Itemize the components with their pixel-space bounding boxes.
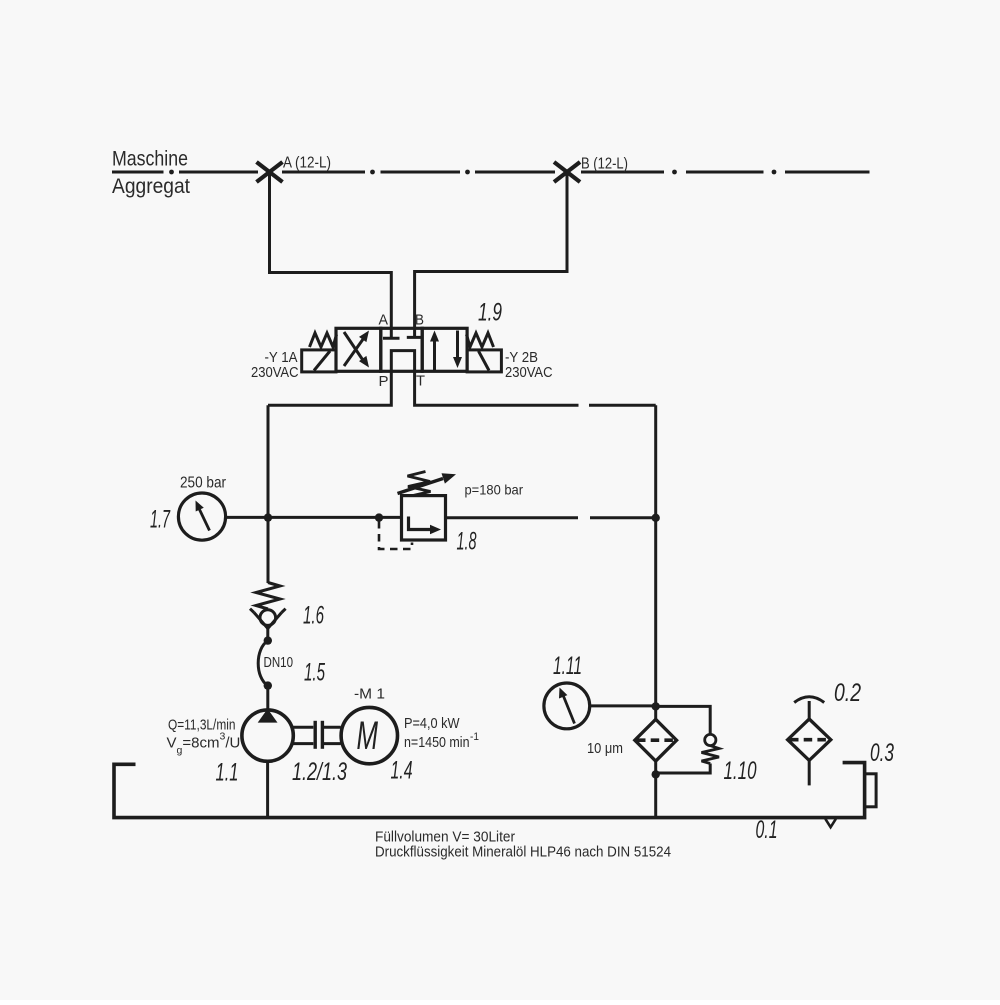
node B (12-L) connection cross: [554, 162, 580, 182]
wire gauge to relief valve line: [226, 516, 402, 519]
gauge 1.11 filter clogging indicator: [544, 683, 590, 729]
port 0.3 return connection block: [865, 774, 877, 807]
svg-text:A: A: [379, 312, 389, 329]
valve 1.9 port labels A B P T: [379, 312, 426, 391]
filter 1.10 return filter 10um: [654, 706, 657, 719]
svg-text:P=4,0 kW: P=4,0 kW: [404, 715, 460, 732]
valve 1.9 left position crossed arrows: [344, 332, 364, 366]
svg-text:1.10: 1.10: [724, 757, 757, 785]
valve 1.9 directional valve body: [336, 328, 467, 371]
svg-text:1.5: 1.5: [304, 659, 325, 687]
note fluid specification text: [375, 830, 671, 861]
junction filter top: [652, 702, 660, 710]
valve 1.9 centre position blocked A/B and P-T bypass: [383, 337, 423, 371]
svg-text:1.2/1.3: 1.2/1.3: [292, 758, 347, 786]
wire B line down to valve port B: [415, 174, 567, 338]
svg-text:-1: -1: [470, 731, 479, 743]
svg-text:Maschine: Maschine: [112, 148, 188, 171]
wire relief valve outlet to tank drop: [446, 516, 578, 519]
svg-text:230VAC: 230VAC: [251, 365, 299, 381]
coupling 1.2/1.3 shaft: [293, 721, 341, 749]
svg-text:250 bar: 250 bar: [180, 475, 227, 492]
tank 0.1 reservoir outline: [114, 763, 865, 818]
node A (12-L) connection cross: [257, 162, 283, 182]
svg-text:B (12-L): B (12-L): [581, 156, 628, 173]
valve 1.8 pressure relief valve: [402, 496, 446, 540]
svg-text:P: P: [379, 373, 389, 390]
svg-text:-Y 2B: -Y 2B: [505, 350, 538, 366]
valve 1.8 spring: [408, 472, 431, 496]
breather 0.2 air filter: [788, 719, 831, 760]
solenoid Y1A box with spring: [302, 350, 336, 372]
svg-text:1.7: 1.7: [150, 506, 171, 534]
svg-text:M: M: [357, 714, 379, 758]
svg-text:Füllvolumen V= 30Liter: Füllvolumen V= 30Liter: [375, 830, 515, 846]
wire valve T to tank drop: [415, 371, 579, 405]
svg-text:Q=11,3L/min: Q=11,3L/min: [168, 717, 236, 734]
junction outlet/tank drop: [652, 514, 660, 522]
svg-text:A (12-L): A (12-L): [283, 155, 331, 172]
svg-text:-M 1: -M 1: [354, 686, 385, 703]
svg-text:T: T: [416, 373, 425, 390]
svg-text:Vg=8cm3/U: Vg=8cm3/U: [167, 731, 241, 757]
tank flow arrow: [825, 819, 836, 827]
solenoid Y2B box with spring: [467, 350, 501, 372]
wire filter to tank: [654, 774, 657, 817]
valve 1.8 pilot dashed line: [379, 521, 412, 549]
svg-text:1.11: 1.11: [553, 652, 582, 680]
gauge 1.7 pressure gauge 250 bar: [178, 493, 225, 540]
svg-text:0.1: 0.1: [756, 816, 778, 844]
valve 1.8 adjustment arrow: [398, 479, 444, 494]
wire pump suction to tank: [266, 761, 269, 817]
node Maschine/Aggregat boundary labels: [112, 148, 190, 199]
hose 1.5 DN10 flexible line: [264, 636, 272, 644]
svg-text:10 μm: 10 μm: [587, 740, 623, 757]
svg-text:-Y 1A: -Y 1A: [265, 350, 298, 366]
svg-text:p=180 bar: p=180 bar: [465, 482, 524, 498]
svg-text:Aggregat: Aggregat: [112, 175, 190, 198]
wire tank drop line right side: [654, 405, 657, 706]
wire A line down to valve port A: [270, 174, 392, 338]
svg-text:230VAC: 230VAC: [505, 365, 553, 381]
wire boundary dash-dot rail: [112, 171, 870, 174]
check valve filter bypass: [656, 706, 711, 734]
junction pilot tap: [375, 513, 383, 521]
svg-text:0.3: 0.3: [870, 739, 894, 767]
svg-text:1.4: 1.4: [391, 757, 413, 785]
svg-text:DN10: DN10: [264, 655, 294, 671]
svg-text:B: B: [415, 312, 424, 329]
check valve 1.6 spring: [256, 583, 280, 610]
svg-text:Druckflüssigkeit Mineralöl HLP: Druckflüssigkeit Mineralöl HLP46 nach DI…: [375, 845, 671, 861]
svg-text:1.9: 1.9: [478, 299, 502, 327]
svg-text:1.1: 1.1: [216, 759, 239, 787]
wire valve P to pump riser: [268, 371, 391, 405]
svg-text:1.6: 1.6: [303, 602, 324, 630]
junction filter bottom: [652, 770, 660, 778]
svg-text:1.8: 1.8: [457, 528, 477, 556]
check valve 1.6 ball and seat: [260, 610, 276, 626]
wire gauge 1.11 to filter: [590, 704, 656, 707]
svg-text:n=1450 min: n=1450 min: [404, 734, 470, 751]
svg-text:0.2: 0.2: [834, 679, 861, 707]
junction riser/gauge line: [264, 513, 272, 521]
motor 1.4 M1: [341, 707, 397, 763]
wire pressure riser (pump to P-line): [267, 405, 270, 583]
valve 1.9 right position parallel arrows: [435, 331, 458, 371]
pump 1.1: [242, 710, 293, 761]
